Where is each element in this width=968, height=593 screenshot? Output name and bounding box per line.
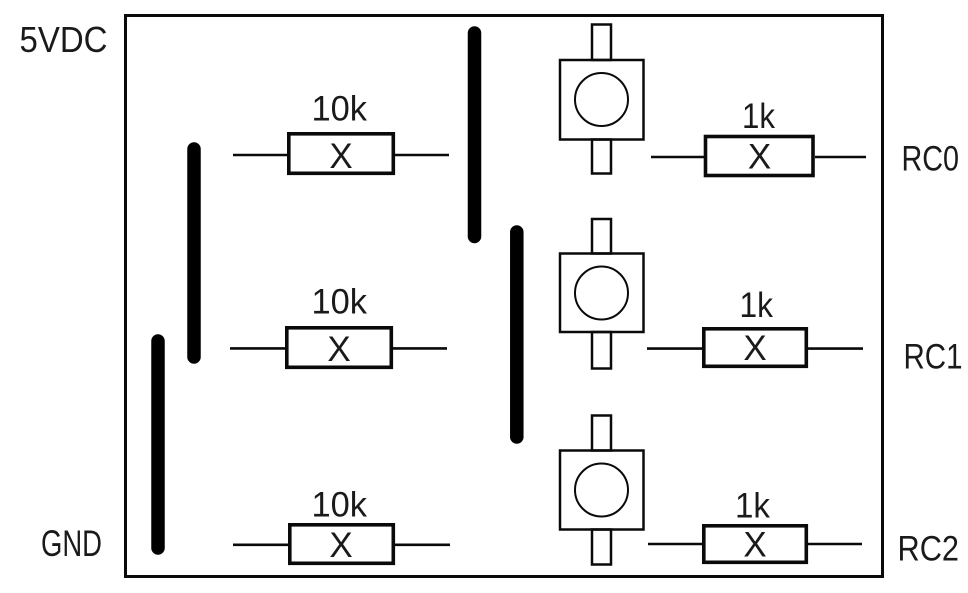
GND bus bar (bottom left) <box>151 341 165 548</box>
resistor R4 1k body <box>706 137 814 176</box>
svg-text:X: X <box>329 137 352 176</box>
wire: right of resistor R3 <box>395 543 450 546</box>
svg-text:X: X <box>327 330 350 369</box>
resistor R5 1k body <box>704 329 807 367</box>
wire: pushbutton S2 to resistor R5 <box>647 347 702 350</box>
svg-text:X: X <box>748 138 771 177</box>
svg-text:1k: 1k <box>740 286 774 325</box>
pushbutton S1 body <box>560 60 644 140</box>
svg-text:10k: 10k <box>312 283 368 322</box>
wire: pushbutton S3 to resistor R6 <box>648 543 702 546</box>
svg-text:RC2: RC2 <box>898 530 960 569</box>
svg-text:RC1: RC1 <box>904 338 963 377</box>
wire: left of pull-up resistor R2 <box>230 347 285 350</box>
wire: pushbutton S1 to resistor R4 <box>651 156 704 159</box>
pushbutton S1 bottom pin <box>592 140 611 174</box>
wire: resistor R6 to RC2 <box>808 543 862 546</box>
resistor R6 1k body <box>704 526 807 563</box>
pushbutton S2 bottom pin <box>592 332 611 369</box>
svg-text:5VDC: 5VDC <box>20 19 108 60</box>
pushbutton S1 top pin <box>592 25 611 61</box>
wire: right of resistor R2 <box>391 347 447 350</box>
pushbutton S3 actuator circle <box>575 464 628 517</box>
5VDC bus bar (thick jumper, top) <box>468 33 482 237</box>
svg-text:GND: GND <box>41 523 102 564</box>
svg-text:10k: 10k <box>312 486 368 525</box>
pushbutton S3 top pin <box>592 416 611 451</box>
wire: left of pull-up resistor R1 <box>233 154 287 157</box>
svg-text:1k: 1k <box>735 486 770 525</box>
pushbutton S3 body <box>560 451 644 530</box>
resistor R3 10k body <box>290 525 394 564</box>
pushbutton S2 body <box>560 254 644 333</box>
svg-text:X: X <box>329 526 352 565</box>
wire: left of pull-up resistor R3 <box>233 543 288 546</box>
wire: resistor R5 to RC1 <box>808 347 863 350</box>
pushbutton S3 bottom pin <box>592 530 611 565</box>
svg-text:RC0: RC0 <box>902 139 960 178</box>
svg-text:X: X <box>743 329 766 368</box>
resistor R2 10k body <box>287 328 392 368</box>
pushbutton S2 top pin <box>592 219 611 254</box>
svg-text:10k: 10k <box>312 90 368 129</box>
bus bar jumper (middle left) <box>187 149 201 357</box>
wire: resistor R4 to RC0 <box>815 156 866 159</box>
svg-text:1k: 1k <box>742 97 775 136</box>
resistor R1 10k body <box>289 134 394 174</box>
bus bar jumper (middle right) <box>510 232 524 437</box>
pushbutton S1 actuator circle <box>575 73 628 126</box>
wire: right of resistor R1 <box>395 154 449 157</box>
border frame <box>126 16 883 577</box>
svg-text:X: X <box>743 526 766 565</box>
pushbutton S2 actuator circle <box>575 267 628 320</box>
